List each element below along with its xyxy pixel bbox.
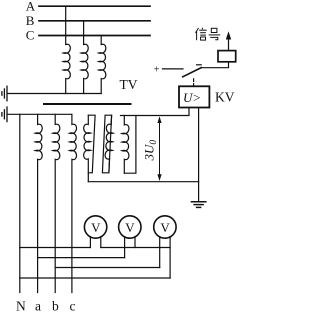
glyph 信 <box>196 28 199 33</box>
wire: relay right pin down to ground <box>198 108 200 202</box>
wire: positive lead <box>163 68 184 70</box>
svg-text:KV: KV <box>215 90 235 105</box>
voltmeter V2 <box>119 216 141 238</box>
wire: bottom row <box>20 277 170 279</box>
open delta hairpin 1 top and right leg <box>88 115 95 173</box>
open delta winding 1 (left leg with loops) <box>84 115 91 182</box>
wire: drop from bus B to TV primary coil 2 <box>83 21 85 45</box>
label 信号 (hand drawn glyphs) <box>196 28 221 40</box>
svg-text:+: + <box>154 64 160 75</box>
svg-text:b: b <box>52 299 59 314</box>
TV primary winding phase C <box>99 44 106 93</box>
open delta winding 2 (loops on hairpin-2 right leg) <box>104 115 114 173</box>
dashed link relay to contact <box>193 77 195 87</box>
transformer core <box>44 103 131 105</box>
wire: b row <box>55 267 160 269</box>
TV primary winding phase B <box>81 44 88 93</box>
contact blade KV <box>183 68 202 77</box>
open delta hairpin 2 <box>102 115 111 173</box>
svg-text:N: N <box>16 299 26 314</box>
TV secondary winding b <box>53 114 60 292</box>
svg-text:V: V <box>91 220 101 235</box>
wire: open delta bottom <box>88 181 198 183</box>
bus B <box>39 20 150 22</box>
bus A <box>39 5 150 7</box>
TV secondary winding a <box>35 114 42 292</box>
contact tick <box>197 64 202 66</box>
svg-text:c: c <box>70 299 76 314</box>
bus C <box>39 35 150 37</box>
ground (secondary star point, sideways earth) <box>2 107 7 122</box>
svg-text:TV: TV <box>120 77 138 92</box>
voltmeter V3 <box>154 216 176 238</box>
svg-text:V: V <box>160 220 170 235</box>
signal arrow <box>228 37 230 51</box>
open delta winding 3 <box>122 116 129 174</box>
svg-text:a: a <box>35 299 41 314</box>
signal box <box>218 51 236 62</box>
ground (primary neutral, sideways earth) <box>2 86 7 101</box>
glyph 号 <box>211 28 217 32</box>
TV primary winding phase A <box>63 44 70 93</box>
3U0 dimension arrow <box>159 119 161 179</box>
ground (relay) <box>191 202 205 208</box>
svg-text:V: V <box>125 220 135 235</box>
relay KV box U> <box>179 86 209 107</box>
wire: N conductor <box>19 114 21 292</box>
wire: drop from bus C to TV primary coil 3 <box>100 36 102 45</box>
wire: N to V1 <box>20 247 91 249</box>
wire: V1 right to V3 right <box>101 247 170 249</box>
svg-text:A: A <box>26 0 36 13</box>
wire: contact to signal box <box>201 62 229 68</box>
svg-text:B: B <box>26 13 35 28</box>
open delta rect 3 right leg <box>124 116 136 174</box>
wire: secondary star line <box>7 113 72 115</box>
wire: open delta output to relay <box>121 108 190 116</box>
wire: primary neutral <box>7 93 101 95</box>
svg-text:C: C <box>26 28 35 43</box>
svg-text:U>: U> <box>183 90 201 105</box>
wire: drop from bus A to TV primary coil 1 <box>65 6 67 44</box>
wire: a row <box>38 257 125 259</box>
TV secondary winding c <box>70 114 77 292</box>
voltmeter V1 <box>84 216 106 238</box>
